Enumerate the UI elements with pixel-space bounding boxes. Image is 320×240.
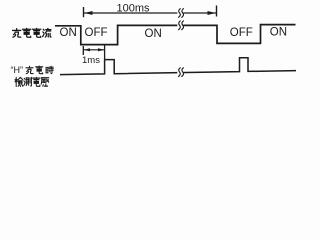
waveform charging current: break mark: [177, 21, 184, 30]
dimension 1ms: line: [84, 49, 105, 51]
waveform charging current: [55, 25, 296, 45]
dimension 100ms: right tick: [216, 6, 218, 17]
svg-text:100ms: 100ms: [117, 3, 151, 15]
svg-text:OFF: OFF: [85, 27, 108, 39]
label detection voltage line 1 ("H" 充電時): [11, 65, 54, 75]
label detection voltage line 2 (檢測電壓): [15, 77, 49, 86]
waveform detection voltage: break mark: [177, 67, 184, 76]
dimension 100ms: break mark: [177, 8, 184, 17]
svg-text:ON: ON: [145, 28, 162, 40]
svg-text:1ms: 1ms: [82, 55, 100, 66]
svg-text:ON: ON: [60, 27, 77, 39]
label charging current (充電電流): [13, 28, 51, 37]
dimension 1ms: left arrowhead: [84, 48, 90, 51]
dimension 1ms: left tick: [82, 46, 84, 55]
waveform detection voltage: [60, 58, 296, 75]
dimension 1ms: right arrowhead: [98, 48, 104, 51]
dimension 1ms: right tick: [104, 46, 106, 60]
dimension 100ms: line: [84, 12, 216, 14]
svg-text:OFF: OFF: [230, 27, 253, 39]
dimension 100ms: right arrowhead: [208, 11, 216, 15]
svg-text:ON: ON: [270, 27, 287, 39]
dimension 100ms: left arrowhead: [85, 11, 93, 15]
dimension 100ms: left tick: [83, 7, 85, 17]
svg-text:“H”: “H”: [11, 65, 24, 75]
